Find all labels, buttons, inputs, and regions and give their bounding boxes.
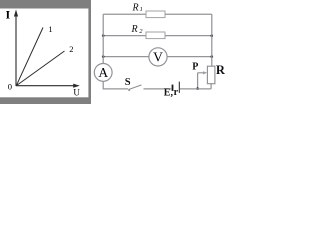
graph I axis arrowhead <box>14 10 18 17</box>
ammeter U2 circle <box>94 64 112 82</box>
voltmeter U1 circle <box>149 48 167 66</box>
wire: bottom right segment <box>180 88 211 90</box>
svg-text:1: 1 <box>140 6 143 13</box>
wire: voltmeter row right segment <box>167 56 212 58</box>
svg-text:U: U <box>73 88 80 98</box>
svg-text:P: P <box>192 62 198 73</box>
wire: bottom middle segment <box>144 88 172 90</box>
svg-text:1: 1 <box>48 24 52 34</box>
graph U axis (horizontal) <box>16 85 76 87</box>
switch S blade <box>128 85 141 90</box>
graph U axis arrowhead <box>73 84 80 88</box>
wire: row 2 left segment <box>103 35 146 37</box>
svg-text:A: A <box>98 65 108 80</box>
svg-text:V: V <box>153 50 163 65</box>
wire: left vertical upper <box>102 14 104 63</box>
svg-text:R: R <box>132 2 139 13</box>
left panel gray frame: bottom bar <box>0 97 91 104</box>
node: wiper-bottom junction <box>196 87 199 90</box>
left panel gray frame: right border <box>88 0 91 104</box>
wire: circuit top (row 1) right segment <box>165 13 212 15</box>
svg-text:r: r <box>174 87 179 98</box>
wire: right vertical <box>211 14 213 66</box>
wire: circuit top (row 1) left segment <box>103 13 146 15</box>
svg-text:2: 2 <box>139 28 143 35</box>
graph line 2 <box>16 51 64 86</box>
wire: left vertical lower <box>102 81 104 89</box>
wire: voltmeter row left segment <box>103 56 149 58</box>
resistor R2 box <box>146 32 165 39</box>
rheostat R box <box>207 66 215 84</box>
graph line 1 <box>16 28 43 86</box>
wire: bottom left segment <box>103 88 128 90</box>
wire: wiper drop <box>197 73 199 89</box>
node: vrow-left junction <box>102 55 105 58</box>
svg-text:2: 2 <box>69 44 73 54</box>
rheostat wiper arrow P <box>198 72 204 74</box>
svg-text:E,: E, <box>164 88 174 99</box>
node: row2-right junction <box>211 34 214 37</box>
battery negative plate (short thick) <box>172 85 174 91</box>
svg-text:0: 0 <box>8 81 12 91</box>
svg-text:R: R <box>131 24 138 35</box>
svg-text:I: I <box>6 8 11 22</box>
wire: row 2 right segment <box>165 35 212 37</box>
node: row2-left junction <box>102 34 105 37</box>
graph I axis (vertical) <box>15 13 17 86</box>
wire: rheostat bottom lead <box>210 84 212 89</box>
resistor R1 box <box>146 11 165 18</box>
node: vrow-right junction <box>211 55 214 58</box>
svg-text:R: R <box>216 63 226 77</box>
svg-text:S: S <box>125 77 131 88</box>
left panel gray frame: top bar <box>0 0 91 9</box>
battery positive plate (long thin) <box>178 82 180 93</box>
